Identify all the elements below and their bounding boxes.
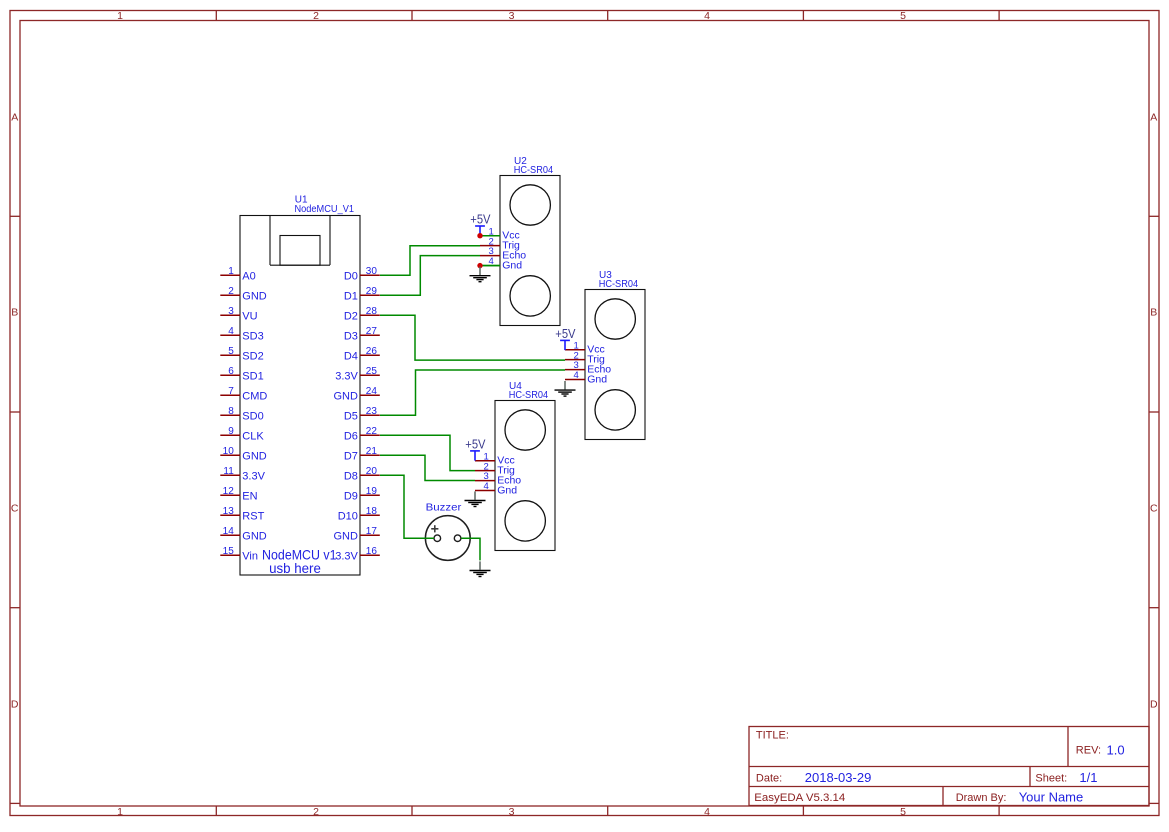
svg-text:3.3V: 3.3V <box>335 550 358 562</box>
svg-text:4: 4 <box>704 10 710 22</box>
svg-text:GND: GND <box>333 390 358 402</box>
svg-text:2: 2 <box>313 806 319 818</box>
svg-text:Gnd: Gnd <box>497 484 517 496</box>
svg-text:15: 15 <box>223 546 235 557</box>
sensor U2 HC-SR04 body <box>500 176 560 326</box>
U1 pin 4 (SD3) <box>220 326 263 342</box>
svg-text:HC-SR04: HC-SR04 <box>599 279 639 290</box>
Buzzer reference label <box>426 501 462 513</box>
U1 pin 11 (3.3V) <box>220 466 265 482</box>
svg-text:14: 14 <box>223 526 235 537</box>
U1 pin 26 (D4) <box>344 346 380 362</box>
U1 pin 24 (GND) <box>333 386 379 402</box>
svg-text:D: D <box>1150 699 1158 711</box>
svg-text:25: 25 <box>366 366 378 377</box>
U2 reference label <box>514 156 554 176</box>
svg-text:EasyEDA V5.3.14: EasyEDA V5.3.14 <box>754 792 845 804</box>
svg-text:20: 20 <box>366 466 378 477</box>
svg-text:6: 6 <box>228 366 234 377</box>
wire U1 D0 to U2 Trig <box>380 246 480 276</box>
U1 pin 5 (SD2) <box>220 346 263 362</box>
svg-text:2: 2 <box>313 10 319 22</box>
svg-text:5: 5 <box>228 346 234 357</box>
svg-text:RST: RST <box>242 510 264 522</box>
U1 pin 22 (D6) <box>344 426 380 442</box>
U2 pin 2 (Trig) <box>480 236 520 251</box>
svg-text:3: 3 <box>509 806 515 818</box>
svg-text:GND: GND <box>242 530 266 542</box>
U3 pin 3 (Echo) <box>565 360 611 375</box>
svg-text:SD2: SD2 <box>242 350 263 362</box>
svg-text:4: 4 <box>704 806 710 818</box>
U1 pin 10 (GND) <box>220 446 266 462</box>
U4 pin 1 (Vcc) <box>475 451 515 466</box>
svg-text:B: B <box>1150 306 1157 318</box>
U1 pin 20 (D8) <box>344 466 380 482</box>
U1 pin 8 (SD0) <box>220 406 263 422</box>
svg-text:HC-SR04: HC-SR04 <box>514 165 554 176</box>
svg-text:D10: D10 <box>338 510 358 522</box>
svg-text:28: 28 <box>366 306 378 317</box>
U1 pin 15 (Vin) <box>220 546 258 562</box>
ground at U2 Gnd <box>470 267 491 282</box>
svg-text:D9: D9 <box>344 490 358 502</box>
svg-text:18: 18 <box>366 506 378 517</box>
svg-text:17: 17 <box>366 526 378 537</box>
svg-text:13: 13 <box>223 506 235 517</box>
svg-text:D7: D7 <box>344 450 358 462</box>
U1 pin 9 (CLK) <box>220 426 264 442</box>
U1 value text NodeMCU v1 / usb here <box>262 547 337 576</box>
svg-text:TITLE:: TITLE: <box>756 730 789 742</box>
svg-text:A0: A0 <box>242 270 255 282</box>
svg-text:11: 11 <box>223 466 234 477</box>
svg-text:EN: EN <box>242 490 257 502</box>
U1 pin 17 (GND) <box>333 526 379 542</box>
U2 pin 4 (Gnd) <box>480 256 522 271</box>
svg-text:5: 5 <box>900 10 906 22</box>
ground at Buzzer <box>470 561 491 576</box>
svg-text:4: 4 <box>574 370 579 381</box>
U3 reference label <box>599 270 639 290</box>
U4 pin 3 (Echo) <box>475 471 521 486</box>
svg-text:8: 8 <box>228 406 234 417</box>
power +5V net flag at U2 Vcc <box>470 213 491 236</box>
svg-text:Sheet:: Sheet: <box>1035 772 1067 784</box>
U4 reference label <box>509 381 549 401</box>
junction dot U2 Vcc <box>477 233 482 238</box>
U1 pin 23 (D5) <box>344 406 380 422</box>
svg-text:5: 5 <box>900 806 906 818</box>
U3 pin 1 (Vcc) <box>565 340 605 355</box>
svg-text:1: 1 <box>117 10 123 22</box>
svg-text:Buzzer: Buzzer <box>426 501 462 513</box>
title block <box>749 727 1149 806</box>
U2 pin 1 (Vcc) <box>480 226 520 241</box>
svg-text:3: 3 <box>509 10 515 22</box>
U1 pin 25 (3.3V) <box>335 366 380 382</box>
U1 pin 21 (D7) <box>344 446 380 462</box>
svg-text:A: A <box>1150 112 1157 124</box>
wire U1 D8 to Buzzer <box>380 475 434 538</box>
svg-text:CMD: CMD <box>242 390 267 402</box>
wire U1 D5 to U3 Echo <box>380 370 565 415</box>
ground at U3 Gnd <box>555 381 576 396</box>
svg-text:3.3V: 3.3V <box>335 370 358 382</box>
U1 pin 13 (RST) <box>220 506 264 522</box>
svg-text:GND: GND <box>333 530 358 542</box>
svg-text:Gnd: Gnd <box>502 259 522 271</box>
svg-text:9: 9 <box>228 426 234 437</box>
junction dot U2 Gnd <box>477 263 482 268</box>
svg-text:16: 16 <box>366 546 378 557</box>
U1 pin 30 (D0) <box>344 266 380 282</box>
U4 pin 4 (Gnd) <box>475 481 517 496</box>
svg-text:1/1: 1/1 <box>1079 770 1097 785</box>
svg-text:24: 24 <box>366 386 378 397</box>
svg-text:REV:: REV: <box>1076 745 1101 757</box>
U1 pin 14 (GND) <box>220 526 266 542</box>
svg-text:C: C <box>11 503 19 515</box>
svg-text:A: A <box>11 112 18 124</box>
svg-text:NodeMCU_V1: NodeMCU_V1 <box>295 204 355 215</box>
wire U1 D6 to U4 Trig <box>380 435 475 470</box>
svg-text:B: B <box>11 306 18 318</box>
svg-text:+5V: +5V <box>465 437 486 451</box>
svg-text:1: 1 <box>228 266 234 277</box>
svg-text:VU: VU <box>242 310 257 322</box>
buzzer Buzzer body <box>425 516 470 561</box>
svg-text:4: 4 <box>484 481 489 492</box>
svg-text:22: 22 <box>366 426 378 437</box>
U2 pin 3 (Echo) <box>480 246 526 261</box>
wire U1 D1 to U2 Echo <box>380 256 480 296</box>
svg-text:GND: GND <box>242 290 266 302</box>
svg-text:D8: D8 <box>344 470 358 482</box>
svg-text:3.3V: 3.3V <box>242 470 265 482</box>
svg-text:HC-SR04: HC-SR04 <box>509 390 549 401</box>
svg-text:Vin: Vin <box>242 550 258 562</box>
svg-text:Drawn By:: Drawn By: <box>956 792 1007 804</box>
svg-text:D3: D3 <box>344 330 358 342</box>
U3 pin 4 (Gnd) <box>565 370 607 385</box>
svg-text:Your Name: Your Name <box>1019 790 1084 805</box>
svg-text:19: 19 <box>366 486 378 497</box>
U1 pin 28 (D2) <box>344 306 380 322</box>
U1 pin 1 (A0) <box>220 266 255 282</box>
U1 pin 6 (SD1) <box>220 366 263 382</box>
U1 reference label <box>295 195 355 215</box>
svg-text:C: C <box>1150 503 1158 515</box>
svg-text:D0: D0 <box>344 270 358 282</box>
wire overlay U2 pin4 <box>480 265 500 267</box>
svg-text:SD1: SD1 <box>242 370 263 382</box>
svg-text:D2: D2 <box>344 310 358 322</box>
U1 pin 2 (GND) <box>220 286 266 302</box>
wire Buzzer to ground <box>461 538 480 560</box>
svg-text:CLK: CLK <box>242 430 264 442</box>
svg-text:23: 23 <box>366 406 378 417</box>
svg-text:21: 21 <box>366 446 378 457</box>
svg-text:26: 26 <box>366 346 378 357</box>
ground at U4 Gnd <box>465 491 486 506</box>
U1 pin 7 (CMD) <box>220 386 267 402</box>
sensor U3 HC-SR04 body <box>585 290 645 440</box>
svg-text:30: 30 <box>366 266 378 277</box>
svg-text:D: D <box>11 699 19 711</box>
op-amp U1 NodeMCU_V1 body <box>240 216 360 576</box>
U1 pin 27 (D3) <box>344 326 380 342</box>
svg-text:29: 29 <box>366 286 378 297</box>
U1 pin 12 (EN) <box>220 486 257 502</box>
svg-text:4: 4 <box>228 326 234 337</box>
wire U1 D7 to U4 Echo <box>380 455 475 480</box>
svg-text:SD3: SD3 <box>242 330 263 342</box>
svg-text:+5V: +5V <box>555 327 576 341</box>
U1 pin 3 (VU) <box>220 306 257 322</box>
sensor U4 HC-SR04 body <box>495 401 555 551</box>
svg-text:SD0: SD0 <box>242 410 263 422</box>
wire U1 D2 to U3 Trig <box>380 315 565 360</box>
svg-text:D1: D1 <box>344 290 358 302</box>
svg-text:D6: D6 <box>344 430 358 442</box>
svg-text:12: 12 <box>223 486 235 497</box>
power +5V net flag at U3 Vcc <box>555 327 576 350</box>
power +5V net flag at U4 Vcc <box>465 437 486 460</box>
svg-text:3: 3 <box>228 306 234 317</box>
U1 pin 18 (D10) <box>338 506 380 522</box>
U1 pin 16 (3.3V) <box>335 546 380 562</box>
svg-text:2: 2 <box>228 286 234 297</box>
svg-text:2018-03-29: 2018-03-29 <box>805 770 872 785</box>
svg-text:D4: D4 <box>344 350 358 362</box>
wire overlay U2 pin1 <box>480 235 500 237</box>
svg-text:7: 7 <box>228 386 234 397</box>
U1 pin 19 (D9) <box>344 486 380 502</box>
svg-text:GND: GND <box>242 450 266 462</box>
svg-text:10: 10 <box>223 446 235 457</box>
svg-text:usb here: usb here <box>269 560 321 576</box>
svg-text:27: 27 <box>366 326 378 337</box>
U4 pin 2 (Trig) <box>475 461 515 476</box>
U3 pin 2 (Trig) <box>565 350 605 365</box>
svg-text:1.0: 1.0 <box>1107 742 1125 757</box>
svg-text:+5V: +5V <box>470 213 491 227</box>
svg-text:Date:: Date: <box>756 772 782 784</box>
U1 pin 29 (D1) <box>344 286 380 302</box>
svg-text:D5: D5 <box>344 410 358 422</box>
svg-text:Gnd: Gnd <box>587 373 607 385</box>
svg-text:1: 1 <box>117 806 123 818</box>
